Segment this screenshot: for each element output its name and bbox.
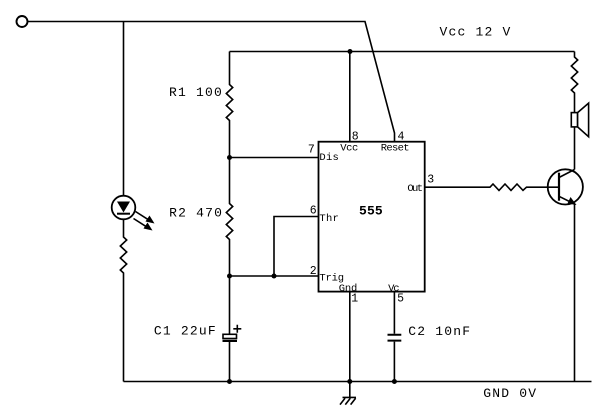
svg-text:R1 100: R1 100 bbox=[169, 85, 223, 100]
svg-text:555: 555 bbox=[359, 204, 383, 219]
svg-text:GND 0V: GND 0V bbox=[483, 386, 537, 401]
svg-text:Out: Out bbox=[407, 183, 423, 195]
svg-text:5: 5 bbox=[397, 292, 404, 305]
svg-text:C2 10nF: C2 10nF bbox=[408, 324, 471, 339]
svg-text:Dis: Dis bbox=[319, 152, 338, 164]
svg-text:Vcc 12 V: Vcc 12 V bbox=[440, 24, 512, 39]
svg-text:1: 1 bbox=[351, 292, 358, 305]
svg-text:Thr: Thr bbox=[319, 213, 338, 225]
svg-text:Vcc: Vcc bbox=[340, 143, 358, 155]
svg-text:8: 8 bbox=[352, 131, 359, 144]
svg-text:C1 22uF: C1 22uF bbox=[154, 324, 217, 339]
svg-text:2: 2 bbox=[310, 265, 317, 278]
svg-text:4: 4 bbox=[398, 131, 405, 144]
svg-text:7: 7 bbox=[308, 144, 315, 157]
svg-text:3: 3 bbox=[427, 173, 434, 186]
svg-text:6: 6 bbox=[310, 205, 317, 218]
svg-text:Reset: Reset bbox=[381, 143, 410, 155]
svg-text:R2 470: R2 470 bbox=[169, 206, 223, 221]
